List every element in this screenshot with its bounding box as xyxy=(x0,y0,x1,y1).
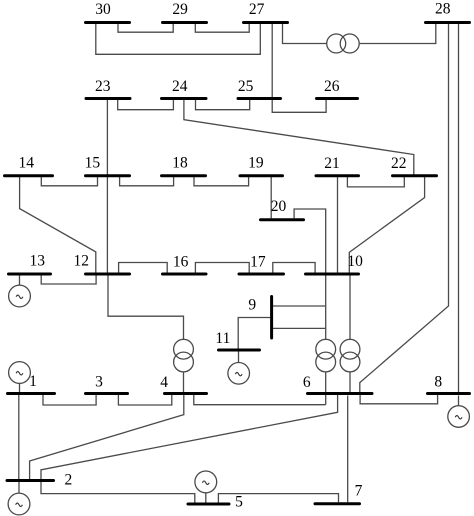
wire 2-6 xyxy=(41,395,338,479)
wire 10 to transformer T4 xyxy=(349,276,351,340)
wire 28-6 xyxy=(360,23,449,392)
wire 1-3 xyxy=(43,395,96,405)
wire 21-10 xyxy=(337,177,339,273)
svg-text:9: 9 xyxy=(248,297,256,314)
bus 5 xyxy=(188,503,229,506)
wire transformer T3 to 6 xyxy=(325,372,327,405)
svg-text:4: 4 xyxy=(160,374,168,391)
bus 4 xyxy=(165,392,207,395)
wire 27-25 xyxy=(271,23,273,97)
wire 22-10 xyxy=(349,177,424,273)
bus 13 xyxy=(9,273,51,276)
tilde G8 xyxy=(455,416,462,419)
wire 25-26 xyxy=(272,100,326,112)
wire 2-4 xyxy=(30,395,184,479)
svg-text:2: 2 xyxy=(65,472,73,489)
wire 12 to transformer T2 xyxy=(108,276,184,340)
wire transformer T1 to 28 xyxy=(359,23,436,44)
svg-text:6: 6 xyxy=(303,374,311,391)
wire 9-6 xyxy=(273,327,326,329)
wire 3-4 xyxy=(118,395,171,405)
bus 25 xyxy=(238,97,281,100)
wire 11-9 xyxy=(238,318,270,349)
wire bus11 to generator G11 xyxy=(238,352,240,363)
wire 10 to transformer T3 xyxy=(325,276,327,340)
wire 5-7 xyxy=(218,494,338,503)
bus 1 xyxy=(8,392,55,395)
wire 24-22 xyxy=(184,100,414,175)
transformer T1 (27-28) xyxy=(327,34,346,53)
svg-text:29: 29 xyxy=(172,1,188,18)
wire 15-18 xyxy=(120,177,174,186)
bus 19 xyxy=(240,174,283,177)
bus 30 xyxy=(86,21,130,24)
bus 28 xyxy=(426,21,470,24)
svg-text:10: 10 xyxy=(347,253,363,270)
svg-text:14: 14 xyxy=(18,155,34,172)
svg-text:17: 17 xyxy=(250,253,266,270)
wire 30-29 xyxy=(118,23,173,32)
generator G2 xyxy=(8,493,30,515)
wire 4-6 xyxy=(194,395,326,405)
tilde G2 xyxy=(16,503,23,506)
bus 24 xyxy=(162,97,207,100)
svg-text:1: 1 xyxy=(29,373,37,390)
wire bus8 to generator G8 xyxy=(458,396,460,406)
wire 1-2 xyxy=(18,395,20,479)
svg-text:18: 18 xyxy=(172,155,188,172)
bus 10 xyxy=(306,273,359,276)
svg-text:23: 23 xyxy=(95,78,111,95)
svg-text:27: 27 xyxy=(249,1,265,18)
svg-text:12: 12 xyxy=(74,253,90,270)
wire 19-20 xyxy=(270,177,272,218)
wire 23-15-12 xyxy=(106,100,108,273)
wire bus13 to generator G13 xyxy=(19,276,21,286)
bus 27 xyxy=(244,21,288,24)
bus 2 xyxy=(7,479,54,482)
generator G8 xyxy=(448,406,470,428)
svg-text:13: 13 xyxy=(29,253,45,270)
wire 30-27 xyxy=(96,23,260,54)
bus 16 xyxy=(163,273,207,276)
generator G11 xyxy=(228,363,250,385)
bus 8 xyxy=(428,392,470,395)
bus 14 xyxy=(5,174,53,177)
svg-text:11: 11 xyxy=(215,330,230,347)
svg-text:3: 3 xyxy=(95,374,103,391)
bus 18 xyxy=(162,174,206,177)
svg-text:16: 16 xyxy=(173,253,189,270)
svg-text:19: 19 xyxy=(248,155,264,172)
wire transformer T2 to 4 xyxy=(183,372,185,392)
svg-text:21: 21 xyxy=(324,155,340,172)
wire 17-10 xyxy=(273,263,315,273)
generator G1 xyxy=(9,362,31,384)
bus 9 xyxy=(270,297,273,339)
wire 9-10 junction xyxy=(273,305,326,307)
bus 12 xyxy=(86,273,130,276)
wire 12-16 xyxy=(119,263,168,274)
wire bus2 to generator G2 xyxy=(18,482,20,493)
wire 28-8 xyxy=(458,23,460,392)
svg-text:30: 30 xyxy=(95,1,111,18)
wire 14-12 xyxy=(20,177,96,273)
bus 26 xyxy=(317,97,358,100)
wire 18-19 xyxy=(194,177,249,186)
bus 23 xyxy=(86,97,130,100)
bus 29 xyxy=(163,21,207,24)
svg-text:24: 24 xyxy=(172,78,188,95)
bus 21 xyxy=(316,174,359,177)
wire 16-17 xyxy=(195,263,249,273)
svg-text:8: 8 xyxy=(434,374,442,391)
tilde G13 xyxy=(16,295,23,298)
wire 29-27 xyxy=(195,23,249,32)
bus 22 xyxy=(393,174,437,177)
bus 15 xyxy=(86,174,130,177)
wire 2-5 xyxy=(41,482,195,503)
svg-text:7: 7 xyxy=(355,482,363,499)
generator G13 xyxy=(9,285,31,307)
svg-text:26: 26 xyxy=(324,78,340,95)
svg-text:28: 28 xyxy=(435,1,451,18)
wire 24-25 xyxy=(196,100,250,110)
svg-text:22: 22 xyxy=(391,155,407,172)
wire 13-12 xyxy=(41,276,96,285)
wire generator G5 to bus5 xyxy=(205,493,207,503)
svg-text:15: 15 xyxy=(85,154,101,171)
wire 21-22 xyxy=(347,177,404,187)
wire 20-10 xyxy=(294,209,326,273)
svg-text:25: 25 xyxy=(238,78,254,95)
wire generator G1 to bus1 xyxy=(19,383,21,392)
wire 6-7 xyxy=(347,396,349,503)
wire transformer T4 to 6 xyxy=(349,372,351,392)
svg-text:20: 20 xyxy=(271,198,287,215)
wire 23-24 xyxy=(118,100,174,110)
wire 27 to transformer T1 xyxy=(283,23,327,44)
bus 17 xyxy=(239,273,284,276)
tilde G11 xyxy=(235,372,242,375)
transformer T4 (6-10) xyxy=(340,339,360,359)
generator G5 xyxy=(195,471,217,493)
bus 11 xyxy=(219,349,260,352)
bus 7 xyxy=(315,502,360,505)
wire 14-15 xyxy=(41,177,97,186)
bus 20 xyxy=(261,218,304,221)
transformer T2 (12-4) xyxy=(174,339,194,359)
svg-text:5: 5 xyxy=(235,494,243,511)
wire 6-8 xyxy=(360,395,438,404)
transformer T3 (6-9/10) xyxy=(316,339,336,359)
tilde G5 xyxy=(202,481,209,484)
tilde G1 xyxy=(16,372,23,375)
bus 6 xyxy=(308,392,373,395)
bus 3 xyxy=(86,392,128,395)
